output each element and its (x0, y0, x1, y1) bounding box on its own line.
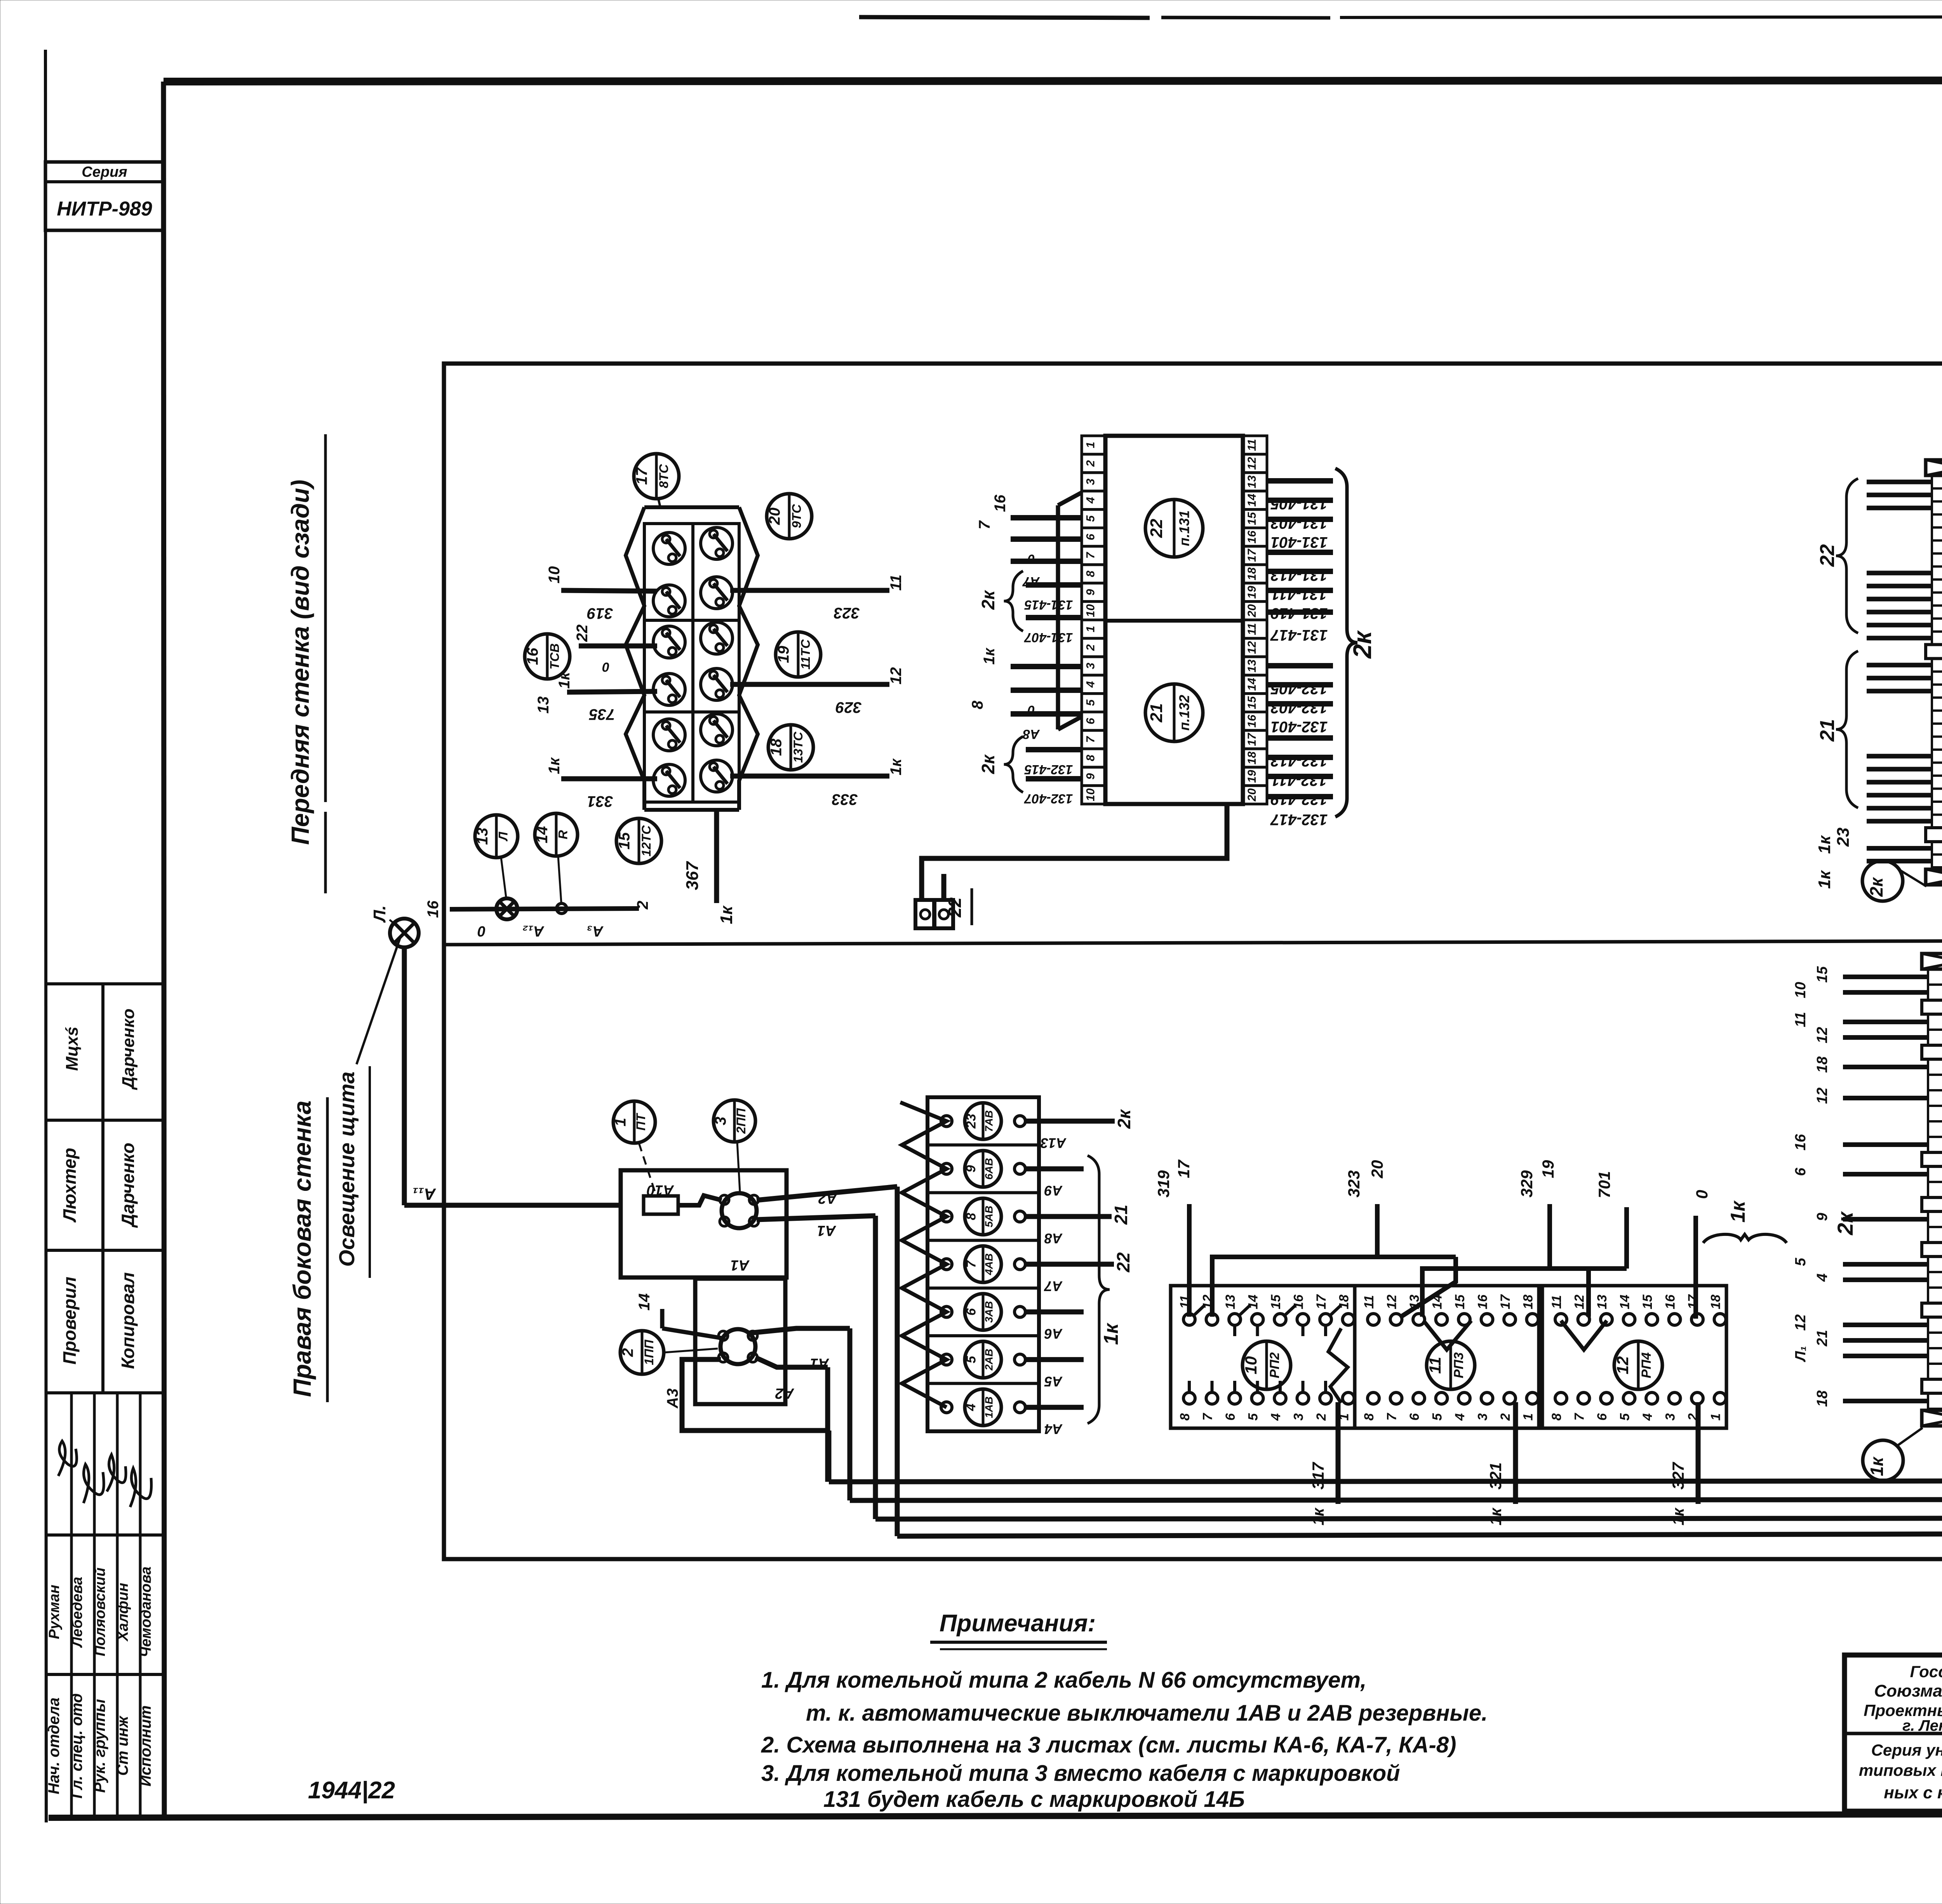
svg-text:11: 11 (1549, 1295, 1564, 1309)
svg-text:132-407: 132-407 (1024, 791, 1073, 806)
svg-text:РП2: РП2 (1267, 1352, 1282, 1378)
svg-text:1. Для котельной типа 2 к: 1. Для котельной типа 2 кабель N 66 отсу… (761, 1667, 1366, 1693)
svg-text:1к: 1к (1669, 1507, 1687, 1525)
svg-text:2: 2 (619, 1348, 636, 1357)
svg-text:323: 323 (834, 604, 860, 621)
svg-text:Лебедева: Лебедева (69, 1577, 85, 1648)
svg-text:18: 18 (1246, 752, 1258, 765)
svg-text:331: 331 (587, 793, 613, 810)
svg-text:1: 1 (1521, 1413, 1536, 1421)
svg-text:1ПП: 1ПП (642, 1339, 656, 1365)
svg-text:8: 8 (969, 700, 986, 709)
svg-text:3: 3 (1084, 479, 1097, 485)
svg-text:А8: А8 (1044, 1230, 1063, 1246)
svg-text:131-407: 131-407 (1024, 630, 1073, 645)
svg-text:ных с котлами ДКВР.: ных с котлами ДКВР. (1884, 1783, 1942, 1802)
svg-text:15: 15 (1246, 696, 1258, 709)
svg-text:323: 323 (1345, 1170, 1363, 1197)
svg-text:23: 23 (1834, 828, 1853, 847)
svg-text:4АВ: 4АВ (983, 1253, 995, 1276)
svg-text:4: 4 (1084, 497, 1097, 504)
svg-text:16: 16 (1792, 1134, 1809, 1150)
svg-text:Нач. отдела: Нач. отдела (45, 1697, 63, 1794)
svg-text:19: 19 (1539, 1160, 1557, 1178)
svg-text:11: 11 (1246, 623, 1258, 635)
svg-text:п.131: п.131 (1176, 510, 1192, 546)
svg-text:13: 13 (474, 828, 491, 845)
svg-text:329: 329 (835, 699, 861, 716)
svg-text:1к: 1к (1309, 1507, 1327, 1525)
svg-text:0: 0 (1693, 1190, 1711, 1199)
svg-text:321: 321 (1486, 1462, 1505, 1490)
svg-text:131-417: 131-417 (1270, 627, 1328, 644)
svg-text:15: 15 (1269, 1294, 1283, 1309)
svg-text:22: 22 (1816, 544, 1839, 567)
svg-text:15: 15 (1246, 512, 1258, 525)
svg-text:0: 0 (602, 660, 609, 674)
svg-text:6: 6 (1595, 1413, 1610, 1420)
svg-text:2: 2 (634, 901, 651, 910)
svg-text:8ТС: 8ТС (656, 464, 671, 488)
svg-text:0: 0 (477, 923, 486, 939)
svg-text:2к: 2к (1348, 630, 1376, 659)
svg-text:11: 11 (1426, 1357, 1444, 1374)
svg-text:2: 2 (1498, 1413, 1513, 1421)
svg-text:Серия унифицированных: Серия унифицированных (1871, 1741, 1942, 1759)
svg-text:т. к. автоматические выключа: т. к. автоматические выключатели 1АВ и 2… (806, 1700, 1488, 1726)
svg-text:1к: 1к (717, 905, 736, 924)
svg-text:РП3: РП3 (1451, 1352, 1466, 1378)
svg-text:9: 9 (1084, 773, 1097, 780)
svg-text:Проектный институт №1: Проектный институт №1 (1864, 1701, 1942, 1720)
svg-text:3. Для котельной типа 3: 3. Для котельной типа 3 вместо кабеля с … (761, 1761, 1400, 1786)
svg-text:13ТС: 13ТС (791, 731, 805, 763)
svg-text:16: 16 (1246, 531, 1258, 544)
svg-text:А₁₁: А₁₁ (412, 1185, 436, 1203)
svg-text:R: R (556, 830, 570, 839)
svg-text:1: 1 (1084, 442, 1097, 448)
svg-text:НИТР-989: НИТР-989 (57, 198, 152, 220)
svg-text:8: 8 (1362, 1413, 1376, 1420)
svg-text:Правая боковая стенка: Правая боковая стенка (288, 1100, 316, 1397)
svg-text:4: 4 (964, 1404, 978, 1411)
svg-text:12: 12 (1814, 1027, 1831, 1043)
svg-text:3: 3 (1663, 1413, 1678, 1420)
svg-text:А2: А2 (775, 1385, 795, 1401)
svg-text:1к: 1к (887, 758, 905, 775)
svg-text:1к: 1к (981, 647, 998, 665)
svg-text:11: 11 (1246, 439, 1258, 451)
svg-text:701: 701 (1595, 1171, 1613, 1198)
svg-text:5: 5 (1618, 1413, 1632, 1420)
svg-text:Исполнит: Исполнит (137, 1706, 154, 1787)
svg-text:Ст инж: Ст инж (114, 1715, 131, 1776)
svg-text:5: 5 (1084, 699, 1097, 706)
svg-text:8: 8 (1178, 1413, 1192, 1420)
svg-text:ПТ: ПТ (633, 1112, 648, 1131)
svg-text:Рухман: Рухман (46, 1585, 63, 1639)
svg-text:15: 15 (1814, 966, 1831, 983)
svg-text:А8: А8 (1023, 727, 1040, 741)
svg-text:132-401: 132-401 (1271, 718, 1328, 735)
svg-text:типовых проектов котель-: типовых проектов котель- (1859, 1761, 1942, 1779)
svg-text:18: 18 (1521, 1295, 1536, 1309)
svg-text:12: 12 (1246, 457, 1258, 470)
svg-text:1к: 1к (1815, 870, 1834, 889)
svg-text:6: 6 (1223, 1413, 1238, 1420)
svg-text:17: 17 (1686, 1294, 1700, 1309)
svg-text:А1: А1 (731, 1257, 750, 1273)
svg-text:Дарченко: Дарченко (119, 1009, 138, 1091)
svg-text:131 будет кабель с мар: 131 будет кабель с маркировкой 14Б (823, 1787, 1245, 1812)
svg-text:Л₁: Л₁ (1792, 1346, 1809, 1362)
svg-text:6АВ: 6АВ (983, 1158, 995, 1180)
svg-text:3: 3 (1084, 663, 1097, 669)
svg-text:18: 18 (1246, 567, 1258, 581)
svg-text:3: 3 (1291, 1413, 1306, 1420)
svg-text:Союзмашстройпроект: Союзмашстройпроект (1874, 1681, 1942, 1700)
svg-text:Дарченко: Дарченко (118, 1143, 138, 1228)
svg-text:21: 21 (1147, 703, 1166, 723)
svg-text:9: 9 (1084, 589, 1097, 595)
svg-text:1к: 1к (1815, 835, 1834, 854)
svg-text:1к: 1к (1727, 1200, 1749, 1223)
svg-text:317: 317 (1309, 1462, 1327, 1490)
svg-text:9: 9 (964, 1165, 978, 1173)
svg-text:19: 19 (1246, 770, 1258, 783)
svg-text:ТСВ: ТСВ (547, 643, 562, 669)
svg-text:18: 18 (1814, 1390, 1831, 1407)
svg-text:4: 4 (1084, 681, 1097, 688)
svg-text:17: 17 (633, 467, 651, 485)
svg-text:5: 5 (1792, 1258, 1809, 1266)
svg-text:16: 16 (425, 900, 442, 918)
svg-text:РП4: РП4 (1639, 1352, 1654, 1378)
svg-text:1: 1 (1084, 626, 1097, 632)
svg-text:367: 367 (683, 861, 702, 890)
svg-text:6: 6 (964, 1308, 978, 1316)
svg-text:13: 13 (535, 696, 552, 714)
svg-text:23: 23 (964, 1114, 978, 1129)
svg-text:Освещение щита: Освещение щита (334, 1072, 359, 1267)
svg-text:22: 22 (945, 897, 965, 918)
svg-text:16: 16 (1246, 715, 1258, 728)
svg-text:3: 3 (712, 1117, 729, 1125)
svg-text:6: 6 (1084, 534, 1097, 540)
svg-text:А9: А9 (1044, 1183, 1063, 1199)
svg-text:16: 16 (992, 494, 1009, 512)
svg-text:2АВ: 2АВ (983, 1349, 995, 1371)
svg-text:11: 11 (1362, 1295, 1376, 1309)
svg-text:11: 11 (887, 574, 905, 591)
svg-text:11ТС: 11ТС (798, 639, 813, 670)
svg-text:А4: А4 (1044, 1421, 1063, 1437)
svg-text:1к: 1к (1486, 1507, 1505, 1525)
svg-text:10: 10 (1084, 604, 1097, 617)
svg-text:Копировал: Копировал (118, 1272, 138, 1369)
svg-text:2ПП: 2ПП (734, 1108, 748, 1134)
svg-text:А₃: А₃ (587, 923, 604, 939)
svg-text:А₁₂: А₁₂ (522, 923, 544, 939)
svg-text:2к: 2к (1114, 1109, 1134, 1129)
svg-text:2к: 2к (1833, 1211, 1857, 1236)
svg-text:Чемоданова: Чемоданова (138, 1566, 154, 1657)
svg-text:13: 13 (1246, 475, 1258, 489)
svg-text:7: 7 (976, 520, 993, 529)
svg-text:8: 8 (1084, 755, 1097, 761)
svg-text:7: 7 (1201, 1412, 1215, 1420)
svg-text:21: 21 (1111, 1204, 1131, 1225)
svg-text:7: 7 (1084, 736, 1097, 743)
svg-text:13: 13 (1246, 660, 1258, 673)
svg-text:19: 19 (775, 646, 792, 663)
svg-text:21: 21 (1816, 719, 1839, 742)
svg-text:Л.: Л. (370, 905, 389, 923)
svg-text:2к: 2к (978, 754, 998, 774)
svg-text:14: 14 (1246, 494, 1258, 507)
svg-text:7АВ: 7АВ (983, 1110, 995, 1132)
svg-text:1: 1 (1709, 1413, 1723, 1421)
svg-text:20: 20 (1246, 788, 1258, 802)
svg-text:г. Ленинград 1970г: г. Ленинград 1970г (1902, 1717, 1942, 1734)
svg-text:4: 4 (1814, 1273, 1831, 1282)
svg-text:11: 11 (1792, 1012, 1809, 1027)
svg-text:Передняя стенка (вид сзади: Передняя стенка (вид сзади) (286, 480, 314, 845)
svg-text:131-415: 131-415 (1024, 597, 1073, 612)
svg-text:3АВ: 3АВ (983, 1301, 995, 1323)
svg-text:14: 14 (636, 1293, 653, 1311)
svg-text:10: 10 (1084, 788, 1097, 801)
svg-text:16: 16 (1663, 1294, 1678, 1309)
svg-text:15: 15 (1453, 1294, 1467, 1309)
svg-text:Проверил: Проверил (59, 1277, 80, 1364)
svg-text:17: 17 (1175, 1159, 1193, 1178)
svg-text:Мцхś: Мцхś (63, 1027, 82, 1071)
svg-text:2. Схема выполнена на 3 ли: 2. Схема выполнена на 3 листах (см. лист… (761, 1732, 1456, 1758)
svg-text:12: 12 (1792, 1314, 1809, 1331)
svg-text:1к: 1к (546, 757, 563, 774)
svg-text:319: 319 (587, 605, 613, 622)
svg-text:22: 22 (1113, 1252, 1133, 1273)
svg-text:329: 329 (1517, 1170, 1536, 1197)
svg-text:10: 10 (1242, 1356, 1260, 1375)
svg-text:7: 7 (1385, 1412, 1399, 1420)
svg-text:10: 10 (1792, 982, 1809, 998)
svg-text:2: 2 (1314, 1413, 1329, 1421)
svg-text:17: 17 (1314, 1294, 1329, 1309)
svg-text:5: 5 (1430, 1413, 1445, 1420)
svg-text:4: 4 (1453, 1413, 1467, 1421)
svg-text:А1: А1 (817, 1222, 837, 1239)
svg-text:6: 6 (1407, 1413, 1422, 1420)
svg-text:14: 14 (1618, 1295, 1632, 1309)
svg-text:13: 13 (1595, 1295, 1610, 1309)
svg-text:15: 15 (1640, 1294, 1655, 1309)
svg-text:10: 10 (546, 566, 563, 584)
svg-text:17: 17 (1498, 1294, 1513, 1309)
svg-text:13: 13 (1223, 1295, 1238, 1309)
svg-text:Серия: Серия (82, 164, 127, 180)
svg-text:1: 1 (612, 1118, 629, 1126)
svg-text:5: 5 (964, 1356, 978, 1363)
svg-text:12: 12 (1385, 1295, 1399, 1309)
svg-text:п.132: п.132 (1176, 695, 1192, 731)
svg-text:А13: А13 (1041, 1135, 1067, 1151)
svg-text:19: 19 (1246, 586, 1258, 599)
svg-text:8: 8 (964, 1213, 978, 1220)
svg-text:132-415: 132-415 (1024, 762, 1073, 777)
svg-text:4: 4 (1640, 1413, 1655, 1421)
svg-text:Халфин: Халфин (115, 1583, 131, 1642)
svg-text:Люхтер: Люхтер (59, 1148, 80, 1223)
svg-text:7: 7 (1084, 552, 1097, 559)
svg-text:8: 8 (1549, 1413, 1564, 1420)
svg-text:20: 20 (766, 508, 783, 526)
svg-text:1к: 1к (1100, 1323, 1122, 1345)
svg-text:2: 2 (1084, 460, 1097, 467)
svg-text:3: 3 (1476, 1413, 1490, 1420)
svg-text:18: 18 (1814, 1056, 1831, 1073)
svg-text:18: 18 (1709, 1295, 1723, 1309)
svg-text:5: 5 (1084, 515, 1097, 522)
svg-text:2к: 2к (1866, 877, 1886, 897)
svg-text:1к: 1к (1867, 1456, 1887, 1476)
svg-text:5: 5 (1246, 1413, 1261, 1420)
svg-text:131-401: 131-401 (1271, 534, 1328, 551)
svg-text:16: 16 (1476, 1294, 1490, 1309)
svg-text:15: 15 (616, 832, 633, 849)
svg-text:327: 327 (1669, 1462, 1687, 1490)
svg-text:4: 4 (1269, 1413, 1283, 1421)
svg-text:7: 7 (1572, 1412, 1587, 1420)
svg-text:1944|22: 1944|22 (308, 1777, 395, 1804)
svg-text:9: 9 (1814, 1213, 1831, 1221)
svg-text:22: 22 (574, 625, 591, 642)
svg-text:735: 735 (589, 706, 615, 723)
svg-text:Поляовский: Поляовский (92, 1568, 108, 1657)
svg-text:14: 14 (534, 826, 551, 844)
svg-text:12ТС: 12ТС (639, 825, 653, 857)
svg-text:Госстрой СССР: Госстрой СССР (1910, 1662, 1942, 1681)
svg-text:333: 333 (832, 791, 858, 808)
svg-text:1АВ: 1АВ (983, 1396, 995, 1418)
svg-text:Гл. спец. отд: Гл. спец. отд (68, 1693, 85, 1798)
svg-text:21: 21 (1814, 1330, 1831, 1347)
svg-text:17: 17 (1246, 733, 1258, 746)
svg-text:14: 14 (1246, 678, 1258, 691)
svg-text:Рук. группы: Рук. группы (91, 1699, 108, 1793)
svg-text:12: 12 (1613, 1356, 1632, 1375)
svg-text:А5: А5 (1044, 1373, 1063, 1389)
svg-text:12: 12 (1814, 1088, 1831, 1104)
svg-text:18: 18 (768, 738, 785, 756)
svg-text:319: 319 (1154, 1170, 1173, 1197)
svg-text:5АВ: 5АВ (983, 1206, 995, 1227)
svg-text:2к: 2к (978, 590, 998, 610)
svg-text:6: 6 (1084, 718, 1097, 724)
svg-text:А10: А10 (647, 1182, 674, 1198)
svg-text:16: 16 (524, 647, 541, 665)
svg-text:9ТС: 9ТС (789, 504, 804, 528)
svg-text:12: 12 (887, 667, 905, 685)
svg-text:17: 17 (1246, 548, 1258, 562)
svg-text:12: 12 (1572, 1295, 1587, 1309)
svg-text:6: 6 (1792, 1168, 1809, 1176)
svg-text:20: 20 (1246, 604, 1258, 618)
svg-text:20: 20 (1368, 1160, 1386, 1179)
svg-text:132-417: 132-417 (1270, 811, 1328, 828)
svg-text:22: 22 (1147, 519, 1166, 538)
svg-text:8: 8 (1084, 571, 1097, 577)
svg-text:Примечания:: Примечания: (940, 1610, 1096, 1637)
svg-text:2: 2 (1084, 644, 1097, 651)
svg-text:А6: А6 (1044, 1326, 1063, 1342)
svg-text:А3: А3 (664, 1388, 681, 1408)
svg-text:7: 7 (964, 1260, 978, 1268)
svg-text:А7: А7 (1044, 1278, 1063, 1294)
svg-text:12: 12 (1246, 641, 1258, 654)
svg-text:Л: Л (496, 831, 510, 841)
